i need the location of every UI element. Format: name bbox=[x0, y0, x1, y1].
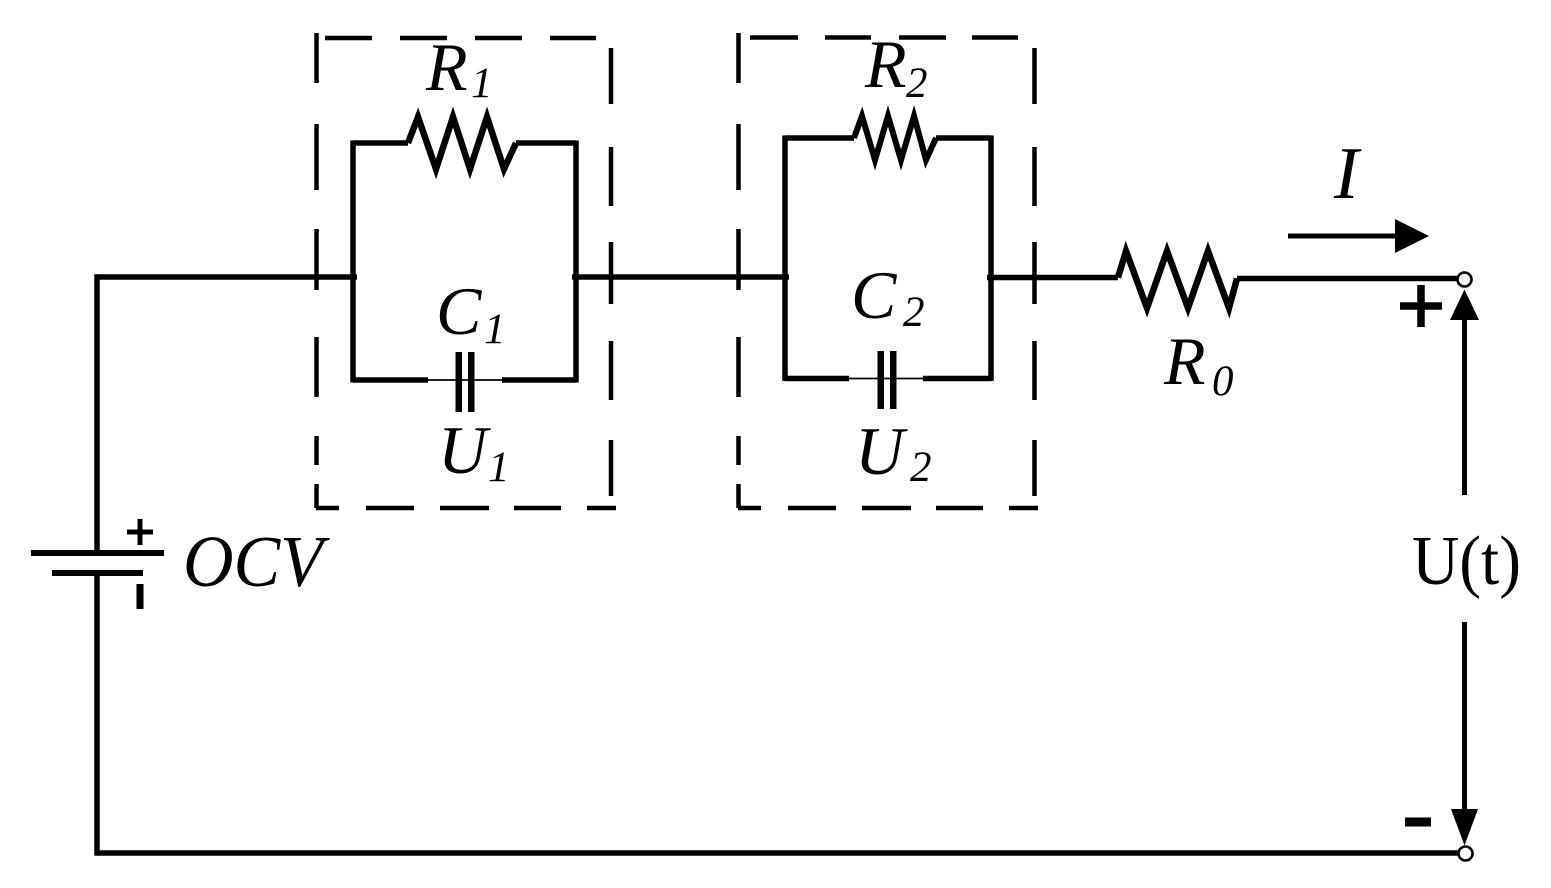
U(t) arrow: upper shaft bbox=[1462, 316, 1467, 495]
RC block 2 bottom wire left of capacitor bbox=[785, 376, 849, 382]
positive terminal circle bbox=[1458, 273, 1472, 287]
thin wire under capacitor C2 bbox=[849, 378, 923, 380]
svg-text:1: 1 bbox=[471, 60, 493, 107]
dashed box around RC pair 2 bbox=[738, 33, 1038, 508]
svg-text:U: U bbox=[438, 412, 491, 488]
RC block 1 inner loop: left vertical bbox=[350, 141, 356, 383]
wire: bottom horizontal from bottom-left corner to negative terminal bbox=[95, 850, 1459, 856]
label R0 bbox=[1163, 323, 1234, 405]
battery OCV: long positive plate bbox=[31, 550, 164, 556]
wire: main horizontal segment between RC block 1 and RC block 2 bbox=[572, 274, 789, 280]
RC block 1 inner loop: right vertical bbox=[573, 141, 579, 383]
wire: main horizontal segment from resistor R0 to positive terminal bbox=[1237, 276, 1457, 282]
svg-text:R: R bbox=[864, 26, 907, 102]
U(t) arrow: lower shaft bbox=[1462, 622, 1467, 812]
wire: left vertical from battery bottom plate down to bottom-left corner bbox=[94, 573, 100, 856]
battery minus tick bbox=[137, 584, 144, 609]
RC block 1 top wire left of resistor bbox=[353, 140, 408, 146]
RC block 2 top wire left of resistor bbox=[785, 135, 854, 141]
svg-text:OCV: OCV bbox=[183, 521, 330, 602]
dashed box around RC pair 1 bbox=[316, 33, 616, 508]
svg-text:1: 1 bbox=[488, 444, 510, 491]
thin wire under capacitor C1 bbox=[428, 379, 502, 381]
battery OCV: short negative plate bbox=[52, 570, 143, 576]
svg-text:2: 2 bbox=[903, 289, 925, 336]
RC block 1 top wire right of resistor bbox=[516, 140, 576, 146]
U(t) arrow: down arrowhead bbox=[1451, 809, 1478, 846]
RC block 2 bottom wire right of capacitor bbox=[923, 376, 991, 382]
svg-text:C: C bbox=[851, 257, 897, 333]
svg-text:C: C bbox=[436, 273, 482, 349]
U(t) arrow: up arrowhead bbox=[1450, 290, 1479, 321]
svg-text:U(t): U(t) bbox=[1412, 523, 1521, 600]
capacitor C1 plates bbox=[456, 352, 475, 412]
resistor R1 zigzag bbox=[408, 117, 516, 169]
svg-text:U: U bbox=[855, 413, 908, 489]
label C2 bbox=[851, 257, 925, 336]
plus sign at output bbox=[1400, 285, 1442, 327]
resistor R0 zigzag bbox=[1118, 251, 1237, 308]
RC block 2 top wire right of resistor bbox=[936, 135, 991, 141]
svg-text:2: 2 bbox=[910, 444, 932, 491]
svg-text:R: R bbox=[425, 29, 468, 105]
RC block 1 bottom wire right of capacitor bbox=[502, 377, 576, 383]
current arrow I: head bbox=[1395, 219, 1429, 253]
label R2 bbox=[864, 26, 928, 107]
minus sign at output bbox=[1405, 818, 1431, 827]
capacitor C2 plates bbox=[878, 351, 897, 409]
svg-text:R: R bbox=[1163, 323, 1206, 399]
RC block 2 inner loop: right vertical bbox=[988, 136, 994, 382]
RC block 1 bottom wire left of capacitor bbox=[353, 377, 428, 383]
current arrow I: shaft bbox=[1288, 234, 1398, 239]
battery plus sign bbox=[127, 519, 153, 545]
wire: left vertical from top-left corner down to battery top plate bbox=[94, 275, 100, 554]
label R1 bbox=[425, 29, 493, 107]
label U1 bbox=[438, 412, 510, 491]
svg-text:2: 2 bbox=[906, 60, 928, 107]
resistor R2 zigzag bbox=[854, 116, 936, 160]
svg-text:1: 1 bbox=[484, 306, 506, 353]
wire: main horizontal segment from left corner to RC block 1 bbox=[95, 274, 358, 280]
negative terminal circle bbox=[1459, 847, 1473, 861]
svg-text:0: 0 bbox=[1212, 358, 1234, 405]
label U2 bbox=[855, 413, 932, 491]
wire: main horizontal segment from RC block 2 to resistor R0 bbox=[987, 275, 1118, 281]
label C1 bbox=[436, 273, 506, 353]
svg-text:I: I bbox=[1333, 133, 1362, 215]
RC block 2 inner loop: left vertical bbox=[782, 136, 788, 382]
